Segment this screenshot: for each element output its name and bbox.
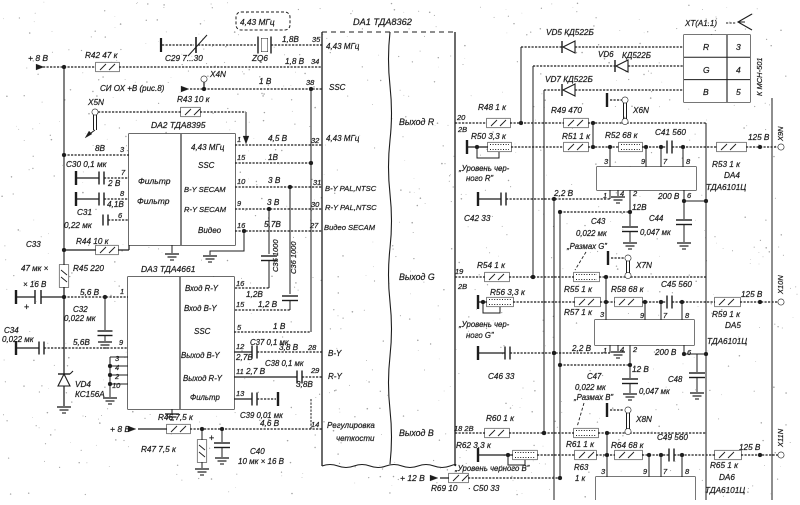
svg-text:КС156А: КС156А [75,390,105,399]
connector X8N [607,403,652,434]
svg-text:R60 1 к: R60 1 к [486,414,515,423]
capacitor C41 [655,128,686,154]
op-amp U DA6 TDA6101Q box [596,477,695,500]
svg-text:X6N: X6N [632,106,649,115]
power label +8V [28,53,48,70]
svg-text:DA5: DA5 [725,321,741,330]
svg-text:DA2 ТДА8395: DA2 ТДА8395 [151,120,206,130]
svg-text:3 В: 3 В [268,176,281,185]
wire C45-R59 [672,300,715,304]
resistor R63 [574,451,596,484]
capacitor C38 [234,359,322,389]
svg-text:10 мк × 16 В: 10 мк × 16 В [238,457,285,466]
capacitor C46 [478,344,610,381]
svg-text:R59 1 к: R59 1 к [712,310,741,319]
svg-text:R55 1 к: R55 1 к [564,285,593,294]
svg-text:Фильтр: Фильтр [137,196,170,206]
node R-Y junction [267,207,271,211]
crystal ZQ6 [251,37,271,64]
wire R69 to 12V rail [468,476,562,480]
op-amp U DA5 TDA6101Q box [595,320,694,345]
resistor R61 trimmer [566,429,598,450]
svg-text:R43 10 к: R43 10 к [177,95,211,104]
svg-text:R48 1 к: R48 1 к [478,103,507,112]
svg-text:СИ ОХ +В (рис.8): СИ ОХ +В (рис.8) [100,84,165,93]
svg-text:С40: С40 [250,447,265,456]
svg-text:R69 10: R69 10 [431,484,458,493]
node R47 tap [200,427,204,431]
label DA1 Video SECAM [324,223,376,232]
label DA4 name [706,171,746,192]
svg-text:DA6: DA6 [719,473,735,482]
svg-text:Выход G: Выход G [399,272,435,282]
power label +8V lower [110,424,136,434]
svg-text:X10N: X10N [776,275,785,295]
resistor R43 [98,95,211,117]
wire G pin3 vert [600,277,606,320]
svg-text:2 В: 2 В [107,179,121,188]
svg-text:0,022 мк: 0,022 мк [64,314,97,323]
node video junction [242,229,246,233]
wire R-Y down [268,209,270,254]
wire R54-R55 [509,275,574,279]
svg-text:ного R”: ного R” [466,174,494,183]
svg-text:VD6: VD6 [598,50,614,59]
svg-text:С29 7...30: С29 7...30 [165,54,203,63]
svg-text:X4N: X4N [209,70,226,79]
svg-text:5: 5 [736,87,741,97]
wire R52-C41 [642,145,667,149]
label DA1 sharpness [327,421,375,443]
pin DA5 4 gnd [611,345,625,358]
svg-text:0,047 мк: 0,047 мк [639,387,670,396]
capacitor C43 [566,212,638,251]
wire DA2 pin9 R-Y to DA1 pin30 [235,198,322,209]
wire R64-C49 [642,453,669,457]
svg-text:R-Y SECAM: R-Y SECAM [184,205,227,214]
wire DA2 pin16 video to DA1 pin27 [235,220,322,231]
svg-text:4,43 МГц: 4,43 МГц [326,134,360,143]
svg-text:0,022 мк: 0,022 мк [575,383,606,392]
svg-text:1,8В: 1,8В [282,35,299,44]
svg-text:2,7 В: 2,7 В [245,367,266,376]
svg-text:Видео SECAM: Видео SECAM [324,223,376,232]
svg-text:Вход R-Y: Вход R-Y [185,284,219,293]
svg-text:32: 32 [311,136,320,145]
wire R57-R58 [600,300,615,304]
pin DA3 16 [236,279,245,288]
svg-text:С46 33: С46 33 [488,372,515,381]
svg-text:ТДА6101Ц: ТДА6101Ц [707,337,747,346]
svg-text:0,022 мк: 0,022 мк [576,229,607,238]
svg-text:10: 10 [112,381,121,390]
connector X6N [607,93,649,124]
wire rail to VD4 [63,297,65,374]
wire VD5 cathode drop [519,47,523,125]
svg-text:18 2В: 18 2В [454,424,474,433]
svg-text:125 В: 125 В [748,133,770,142]
ground VD4 [57,407,71,413]
svg-text:4,43 МГц: 4,43 МГц [240,17,275,27]
svg-text:2,2 В: 2,2 В [553,189,574,198]
resistor R51 [562,132,591,152]
resistor R60 [485,414,515,438]
resistor R64 [611,441,645,460]
svg-text:R58 68 к: R58 68 к [611,285,645,294]
op-amp U DA3 TDA4661 box [128,264,234,409]
diode VD6 KD522B [533,50,684,72]
svg-text:200 В: 200 В [657,192,680,201]
capacitor C34 [2,326,128,355]
resistor R55 trimmer [564,273,599,295]
svg-text:С32: С32 [73,305,88,314]
capacitor C49 [657,433,688,462]
capacitor C31 [76,189,129,217]
label DA3 in R-Y [185,284,219,293]
connector X7N [608,251,652,278]
svg-text:R49 470: R49 470 [551,106,582,115]
svg-text:28: 28 [307,343,317,352]
svg-text:+: + [24,302,29,312]
wire R48 to R49 [510,122,564,124]
svg-text:1: 1 [603,191,607,200]
svg-text:VD7 КД522Б: VD7 КД522Б [545,75,593,84]
pin DA3 4 [115,363,119,372]
svg-text:X8N: X8N [635,415,652,424]
connector X9N [776,126,785,150]
wire B-Y down [289,187,291,294]
op-amp U DA2 TDA8395 box [129,120,235,245]
capacitor C39 [234,392,311,429]
label DA6 name [705,473,745,495]
capacitor C29 trimmer [161,35,207,63]
wire R51-R52 [588,145,619,149]
svg-text:R47 7,5 к: R47 7,5 к [141,445,177,454]
ground video route [203,256,217,262]
svg-text:X11N: X11N [776,428,785,448]
pin DA5 6 200V [654,345,692,357]
label K MSN-501 [755,57,764,96]
svg-text:13: 13 [236,389,245,398]
svg-text:B: B [703,87,709,97]
wire 12V rail [558,210,562,478]
wire sandcastle line to pin38 [190,77,322,89]
connector XT(A1.1) box [684,35,750,102]
svg-text:4,43 МГц: 4,43 МГц [191,143,225,152]
wire left rail upper [63,67,65,265]
svg-text:R53 1 к: R53 1 к [712,160,741,169]
svg-text:1: 1 [603,346,607,355]
svg-text:5,6В: 5,6В [73,338,90,347]
wire C29 to ZQ6 [198,44,256,46]
svg-text:4: 4 [620,345,624,354]
pin DA1 18 [454,424,474,433]
wire R42 to pin34 [119,57,322,67]
svg-text:С30 0,1 мк: С30 0,1 мк [66,160,108,169]
label DA1 out R [399,117,435,127]
svg-text:29: 29 [310,366,320,375]
resistor R58 [611,285,645,307]
capacitor C48 [639,354,705,399]
resistor R44 [62,237,129,255]
svg-text:2,7В: 2,7В [235,353,253,362]
terminal gnd R black level [466,140,468,154]
pin DA3 3 [115,354,120,363]
resistor R65 [710,451,741,471]
svg-text:Выход R-Y: Выход R-Y [183,374,223,383]
svg-text:R56 3,3 к: R56 3,3 к [490,288,526,297]
svg-text:R42 47 к: R42 47 к [85,51,119,60]
node DA3 pin1 feed [62,295,66,299]
resistor R56 trimmer [483,288,526,313]
label DA1 R-Y PAL NTSC [325,203,377,212]
label DA1 443 pin35 [326,42,360,51]
label 1,2V b [258,300,278,309]
node C32 tap [103,295,107,299]
wire 200V to rail [684,199,708,203]
svg-text:R: R [703,42,709,52]
svg-text:12 В: 12 В [632,365,649,374]
svg-text:„Размах G”: „Размах G” [566,242,607,251]
svg-text:1,8 В: 1,8 В [285,57,305,66]
power label +12V [400,473,438,483]
resistor R45 [60,264,105,287]
label black level B [454,464,530,473]
svg-text:„Уровень черного В”: „Уровень черного В” [454,464,530,473]
svg-text:С38 0,1 мк: С38 0,1 мк [265,359,304,368]
svg-text:+ 8 В: + 8 В [28,53,48,63]
node 12V G [628,363,649,374]
svg-text:R50 3,3 к: R50 3,3 к [471,132,507,141]
svg-text:XT(A1.1): XT(A1.1) [684,19,717,28]
wire 200V G to rail [684,352,708,356]
svg-text:R61 1 к: R61 1 к [566,440,595,449]
svg-text:+: + [209,433,214,443]
wire R56-R57 [513,301,575,303]
svg-text:Фильтр: Фильтр [138,176,171,186]
svg-text:+ 8 В: + 8 В [110,424,130,434]
svg-text:R-Y PAL,NTSC: R-Y PAL,NTSC [325,203,377,212]
svg-text:X9N: X9N [776,126,785,142]
svg-text:С48: С48 [668,375,683,384]
svg-text:2В: 2В [457,282,467,291]
resistor R47 [141,429,207,468]
svg-text:2: 2 [632,189,638,198]
svg-text:ного G”: ного G” [466,331,494,340]
svg-text:0,22 мк: 0,22 мк [64,221,93,230]
pin DA3 13 [236,389,245,398]
resistor R50 trimmer [471,132,511,158]
svg-text:SSC: SSC [198,161,215,170]
wire C41-R53 [672,145,717,149]
svg-text:R44 10 к: R44 10 к [76,237,110,246]
label DA2 SSC [198,161,215,170]
svg-text:3,8 В: 3,8 В [279,343,299,352]
svg-text:DA1 ТДА8362: DA1 ТДА8362 [353,17,412,27]
pin 34 [311,57,319,66]
capacitor C42 [464,189,610,223]
pin DA3 11 [236,367,244,376]
svg-text:КД522Б: КД522Б [622,51,651,60]
wire R65 out 125V [739,443,778,457]
svg-text:С34: С34 [4,326,19,335]
svg-text:3 В: 3 В [267,198,280,207]
svg-text:4,1В: 4,1В [107,200,124,209]
svg-text:4,6 В: 4,6 В [260,419,280,428]
wire R58-C45 [642,300,667,304]
wire ZQ6 to pin35 [271,35,322,45]
label DA2 filter text [137,176,171,206]
svg-text:1В: 1В [268,153,279,162]
capacitor C47 [573,365,638,402]
label DA2 B-Y SECAM [184,185,226,194]
resistor R54 [477,261,509,282]
svg-text:0,047 мк: 0,047 мк [640,228,671,237]
svg-text:С41 560: С41 560 [655,128,686,137]
capacitor C32 [64,297,113,348]
svg-text:4: 4 [115,363,119,372]
wire 2,2V rail [552,199,556,500]
svg-text:R-Y: R-Y [328,372,342,381]
svg-text:47 мк ×: 47 мк × [21,264,49,273]
pin DA1 19 [455,267,467,291]
pin 35 [312,35,321,44]
svg-text:1,2В: 1,2В [246,290,263,299]
wire R63-R64 [596,453,615,457]
pin DA3 10 [112,381,121,390]
pin DA4 8 [683,147,691,167]
capacitor C45 [661,280,692,309]
terminal gnd B black level [478,448,513,462]
svg-text:SSC: SSC [329,83,346,92]
ground R47 [195,469,209,475]
svg-text:19: 19 [455,267,464,276]
pin DA5 1 [603,345,610,355]
label DA2 443MHz [191,143,225,152]
svg-text:2В: 2В [457,125,467,134]
pin DA4 7 [661,147,668,167]
svg-text:15: 15 [237,153,246,162]
svg-text:X7N: X7N [635,261,652,270]
svg-text:VD5 КД522Б: VD5 КД522Б [546,28,594,37]
svg-text:12В: 12В [632,203,647,212]
svg-text:· С50 33: · С50 33 [468,484,500,493]
capacitor C40 electrolytic [209,429,285,466]
svg-text:4,43 МГц: 4,43 МГц [326,42,360,51]
label 4,43 MHz callout box [236,12,290,30]
svg-text:38: 38 [306,78,315,87]
wire R46 to DA1 pin14 [190,419,322,429]
label DA1 R-Y in [328,372,342,381]
wire B pin3 vert [601,433,607,477]
svg-text:1: 1 [120,287,124,296]
svg-text:С31: С31 [77,208,92,217]
wire R43 to DA2 pin1 [200,112,249,144]
wire R50-R51 [511,146,564,148]
label C50 [468,484,500,493]
svg-text:Выход B-Y: Выход B-Y [181,351,220,360]
ground DA3 bottom [165,409,179,420]
svg-text:С49 560: С49 560 [657,433,688,442]
svg-text:1 к: 1 к [575,474,586,483]
svg-text:четкости: четкости [336,434,375,443]
capacitor C37 [234,338,322,362]
resistor R62 trimmer [456,441,537,465]
wire +8V feed [36,66,96,68]
svg-text:С33: С33 [26,240,41,249]
wire to R50 [467,145,488,149]
label black level R [458,164,510,183]
resistor R48 [478,103,510,128]
wire 200V rail [705,123,707,500]
pin DA3 5 [237,323,242,332]
svg-text:30: 30 [311,200,320,209]
diode VD5 KD522B [521,28,684,53]
resistor R69 [431,474,468,494]
wire R60-R61 [509,431,574,435]
svg-text:14: 14 [311,420,319,429]
svg-text:5,6 В: 5,6 В [80,288,100,297]
connector X5N [85,98,104,138]
svg-text:2,2 В: 2,2 В [571,344,592,353]
svg-text:С35 1000: С35 1000 [271,239,280,272]
node X4N junction [202,87,206,91]
svg-text:27: 27 [309,221,319,230]
svg-text:R62 3,3 к: R62 3,3 к [456,441,492,450]
svg-text:R52 68 к: R52 68 к [605,131,639,140]
wire R53 out 125V [746,133,778,149]
wire 12V G rail [560,364,630,366]
svg-text:R54 1 к: R54 1 к [477,261,506,270]
pin DA6 7 [661,455,668,477]
wire R55 onward [599,275,706,279]
label DA1 out G [399,272,435,282]
op-amp U DA4 TDA6101Q box [597,167,696,190]
svg-text:1,2 В: 1,2 В [258,300,278,309]
svg-text:3,8В: 3,8В [296,380,313,389]
wire DA3 grounded pins bus [108,357,128,397]
svg-text:1 В: 1 В [273,322,286,331]
pin DA4 4 gnd [611,189,625,203]
node C40 tap [220,427,224,431]
resistor R49 [551,106,588,128]
wire razmah B arrow [577,403,584,427]
svg-text:16: 16 [237,221,246,230]
svg-text:Выход B: Выход B [399,428,434,438]
node B-Y junction [288,185,292,189]
label DA1 SSC [329,83,346,92]
svg-text:С44: С44 [649,214,664,223]
wire DA2 pin15 SSC [235,153,311,163]
svg-text:4: 4 [620,189,624,198]
label DA3 out B-Y [181,351,220,360]
svg-text:200 В: 200 В [654,348,677,357]
svg-text:Регулировка: Регулировка [327,421,375,430]
label DA1 B-Y in [328,349,342,358]
svg-text:С36 1000: С36 1000 [289,241,298,274]
wire pin1 5,6V [64,287,128,297]
svg-text:35: 35 [312,35,321,44]
svg-text:Видео: Видео [198,226,222,235]
svg-text:34: 34 [311,57,319,66]
svg-text:ТДА6101Ц: ТДА6101Ц [705,486,745,495]
pin DA4 2 [630,189,638,212]
svg-text:4: 4 [736,65,741,75]
wire R59 out 125V [740,290,778,304]
node 12V R [628,203,647,214]
wire DA2 pin10 B-Y to DA1 pin31 [235,176,322,187]
capacitor C35 [235,239,280,288]
